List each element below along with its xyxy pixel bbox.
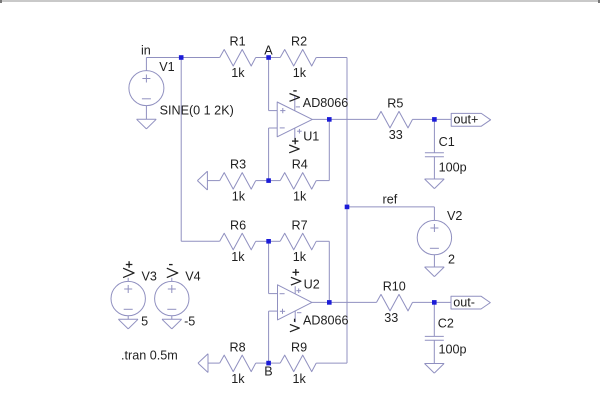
wire in node to R1 bbox=[146, 57, 219, 59]
node junction U2 output bbox=[327, 300, 332, 305]
spice directive .tran 0.5m bbox=[121, 349, 178, 363]
value 5 of V3 bbox=[141, 314, 148, 328]
node junction ref rail bbox=[345, 205, 350, 210]
U2 V- pin label bbox=[290, 319, 299, 332]
value 1k of R8 bbox=[231, 372, 245, 386]
label U2 bbox=[304, 278, 320, 292]
value 1k of R1 bbox=[231, 66, 245, 80]
label V4 bbox=[185, 270, 200, 284]
U1 V- pin label bbox=[290, 91, 300, 101]
label U1 bbox=[303, 130, 319, 144]
svg-text:U1: U1 bbox=[303, 130, 319, 144]
svg-text:V2: V2 bbox=[447, 209, 462, 223]
value 2 of V2 bbox=[448, 253, 455, 267]
value 1k of R2 bbox=[293, 66, 307, 80]
ground below V2 bbox=[425, 267, 445, 277]
voltage source V3 bbox=[111, 278, 145, 320]
wire R8 right lead bbox=[256, 362, 269, 364]
svg-text:R3: R3 bbox=[230, 157, 246, 171]
value 1k of R7 bbox=[293, 250, 307, 264]
wire node B to R9 bbox=[269, 362, 281, 364]
wire node A down to U1 +input bbox=[269, 58, 278, 111]
label out- bbox=[453, 295, 475, 309]
label R4 bbox=[292, 157, 308, 171]
value 33 of R5 bbox=[389, 128, 403, 142]
svg-text:1k: 1k bbox=[231, 66, 245, 80]
wire U2 +input to node B bbox=[269, 311, 278, 363]
svg-text:R2: R2 bbox=[291, 34, 307, 48]
svg-text:R6: R6 bbox=[230, 218, 246, 232]
svg-text:2: 2 bbox=[448, 253, 455, 267]
label R9 bbox=[291, 340, 307, 354]
svg-text:1k: 1k bbox=[293, 66, 307, 80]
svg-text:V3: V3 bbox=[142, 270, 157, 284]
wire R9 right lead to ref rail corner bbox=[316, 362, 347, 364]
svg-text:out+: out+ bbox=[454, 113, 479, 127]
svg-text:R4: R4 bbox=[292, 157, 308, 171]
svg-text:V4: V4 bbox=[185, 270, 200, 284]
svg-text:1k: 1k bbox=[293, 189, 307, 203]
label R3 bbox=[230, 157, 246, 171]
node junction R6/R7 bbox=[266, 239, 271, 244]
wire R1 right lead bbox=[256, 57, 269, 59]
value SINE(0 1 2K) bbox=[160, 103, 234, 117]
out+ port flag bbox=[451, 113, 490, 126]
svg-text:R1: R1 bbox=[230, 34, 246, 48]
wire R3/R4 node to R4 bbox=[269, 180, 281, 182]
label C2 bbox=[438, 317, 454, 331]
svg-text:R8: R8 bbox=[230, 340, 246, 354]
value 100p of C1 bbox=[439, 160, 467, 174]
svg-text:1k: 1k bbox=[293, 250, 307, 264]
svg-text:33: 33 bbox=[384, 311, 398, 325]
label AD8066 of U2 bbox=[303, 313, 349, 327]
op-amp U1 bbox=[277, 96, 312, 140]
svg-text:-5: -5 bbox=[184, 314, 195, 328]
op-amp U2 bbox=[278, 285, 312, 323]
value -5 of V4 bbox=[184, 314, 195, 328]
label R2 bbox=[291, 34, 307, 48]
value 1k of R4 bbox=[293, 189, 307, 203]
capacitor C2 bbox=[425, 302, 444, 363]
wire long vertical from in node down to R6 row bbox=[180, 58, 182, 242]
label R10 bbox=[383, 280, 406, 294]
resistor R7 bbox=[280, 233, 316, 250]
wire R6 right lead bbox=[256, 240, 269, 242]
label R8 bbox=[230, 340, 246, 354]
wire R7 right lead down to U2 output bbox=[316, 241, 329, 302]
ground below V3 bbox=[118, 319, 138, 329]
svg-text:R5: R5 bbox=[387, 96, 403, 110]
svg-text:1k: 1k bbox=[231, 372, 245, 386]
svg-text:C2: C2 bbox=[438, 317, 454, 331]
svg-text:5: 5 bbox=[141, 314, 148, 328]
svg-text:B: B bbox=[264, 364, 272, 378]
voltage source V1 bbox=[129, 58, 164, 120]
resistor R3 bbox=[220, 173, 256, 190]
value 1k of R3 bbox=[232, 189, 246, 203]
svg-text:100p: 100p bbox=[439, 343, 467, 357]
wire R6/R7 node to R7 bbox=[269, 240, 281, 242]
resistor R1 bbox=[220, 50, 256, 67]
wire long vertical ref rail (R2 corner down to R9 corner) bbox=[346, 58, 348, 364]
resistor R8 bbox=[220, 355, 256, 372]
node junction out- / C2 bbox=[432, 300, 437, 305]
wire R4 right lead up to U1 output bbox=[316, 119, 329, 180]
node B junction bbox=[266, 361, 271, 366]
capacitor C1 bbox=[425, 119, 444, 179]
ground below V1 bbox=[137, 119, 157, 129]
svg-text:ref: ref bbox=[383, 193, 398, 207]
node A junction bbox=[266, 55, 271, 60]
node junction at in/V1/R1 bbox=[179, 55, 184, 60]
label R1 bbox=[230, 34, 246, 48]
wire U2 output row to R10 and out- flag bbox=[312, 301, 451, 303]
U1 V+ pin label bbox=[289, 138, 299, 153]
value 100p of C2 bbox=[439, 343, 467, 357]
net label A bbox=[264, 43, 273, 57]
net label V- above V4 bbox=[167, 265, 178, 278]
ground below C2 bbox=[425, 364, 445, 374]
node junction U1 output bbox=[327, 117, 332, 122]
resistor R2 bbox=[280, 50, 316, 67]
svg-text:V1: V1 bbox=[159, 60, 174, 74]
wire node A to R2 bbox=[269, 57, 281, 59]
node junction out+ / C1 bbox=[432, 117, 437, 122]
ground left of R3 bbox=[197, 171, 219, 190]
ground below V4 bbox=[162, 319, 182, 329]
value 1k of R9 bbox=[293, 372, 307, 386]
svg-text:C1: C1 bbox=[439, 135, 455, 149]
label C1 bbox=[439, 135, 455, 149]
svg-text:.tran 0.5m: .tran 0.5m bbox=[121, 349, 178, 363]
svg-text:R10: R10 bbox=[383, 280, 406, 294]
ground below C1 bbox=[425, 179, 445, 189]
svg-text:in: in bbox=[141, 43, 151, 57]
value 33 of R10 bbox=[384, 311, 398, 325]
voltage source V2 bbox=[417, 220, 451, 267]
svg-text:AD8066: AD8066 bbox=[303, 96, 349, 110]
svg-text:R7: R7 bbox=[292, 218, 308, 232]
svg-text:1k: 1k bbox=[231, 250, 245, 264]
label R7 bbox=[292, 218, 308, 232]
wire R6 row from left rail bbox=[181, 240, 220, 242]
wire ref row from rail to V2 bbox=[347, 207, 434, 221]
wire R2 right lead to corner bbox=[316, 57, 347, 59]
net label B bbox=[264, 364, 272, 378]
net label V+ above V3 bbox=[123, 261, 134, 277]
label AD8066 of U1 bbox=[303, 96, 349, 110]
svg-text:SINE(0 1 2K): SINE(0 1 2K) bbox=[160, 103, 234, 117]
net label in bbox=[141, 43, 151, 57]
resistor R10 bbox=[377, 294, 413, 311]
svg-text:100p: 100p bbox=[439, 160, 467, 174]
value 1k of R6 bbox=[231, 250, 245, 264]
label V3 bbox=[142, 270, 157, 284]
svg-text:33: 33 bbox=[389, 128, 403, 142]
label R6 bbox=[230, 218, 246, 232]
label V2 bbox=[447, 209, 462, 223]
wire U1 output row to R5 and out+ flag bbox=[312, 118, 451, 120]
node junction R3/R4 bbox=[266, 178, 271, 183]
label out+ bbox=[454, 113, 479, 127]
wire U1 -input to R3/R4 node bbox=[269, 128, 278, 181]
svg-text:U2: U2 bbox=[304, 278, 320, 292]
svg-text:1k: 1k bbox=[232, 189, 246, 203]
resistor R5 bbox=[377, 111, 413, 128]
U2 V+ pin label bbox=[291, 269, 301, 285]
top window border line bbox=[0, 0, 600, 3]
label R5 bbox=[387, 96, 403, 110]
resistor R6 bbox=[220, 233, 256, 250]
voltage source V4 bbox=[155, 278, 189, 320]
svg-text:out-: out- bbox=[453, 295, 475, 309]
svg-text:AD8066: AD8066 bbox=[303, 313, 349, 327]
resistor R9 bbox=[280, 355, 316, 372]
net label ref bbox=[383, 193, 398, 207]
svg-text:1k: 1k bbox=[293, 372, 307, 386]
ground left of R8 bbox=[198, 354, 220, 373]
svg-text:R9: R9 bbox=[291, 340, 307, 354]
label V1 bbox=[159, 60, 174, 74]
wire R6/R7 node down to U2 -input bbox=[269, 241, 278, 293]
wire R3 right lead bbox=[256, 180, 269, 182]
resistor R4 bbox=[280, 173, 316, 190]
out- port flag bbox=[451, 296, 490, 309]
